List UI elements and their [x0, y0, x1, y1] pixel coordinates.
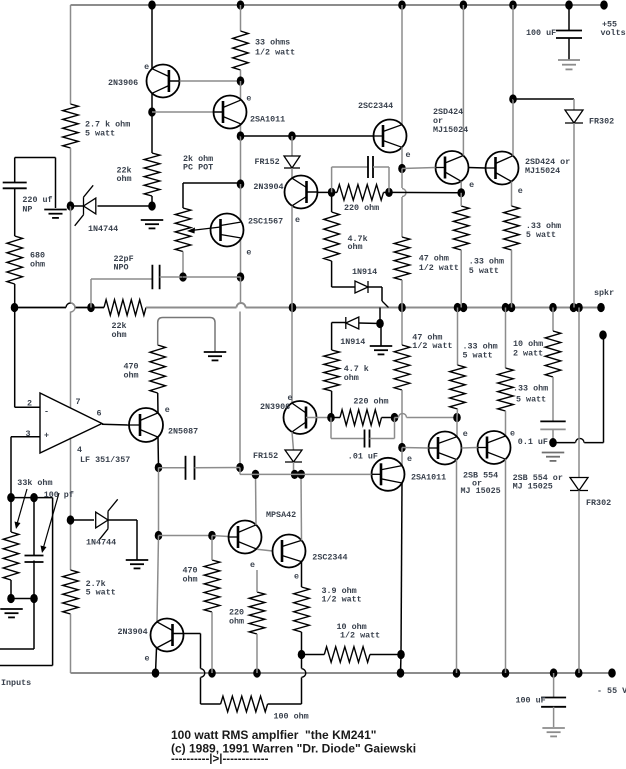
svg-text:NPO: NPO: [114, 263, 129, 273]
svg-text:e: e: [144, 62, 149, 72]
svg-text:5 watt: 5 watt: [463, 351, 493, 361]
svg-text:e: e: [246, 248, 251, 258]
svg-text:2N3906: 2N3906: [260, 402, 290, 412]
svg-text:2: 2: [27, 399, 32, 409]
svg-text:PC POT: PC POT: [183, 163, 213, 173]
svg-text:----------|>|------------: ----------|>|------------: [171, 754, 269, 764]
svg-text:.01 uF: .01 uF: [348, 452, 378, 462]
svg-text:e: e: [463, 429, 468, 439]
svg-text:47 ohm: 47 ohm: [419, 254, 449, 264]
svg-text:e: e: [510, 429, 515, 439]
svg-text:e: e: [288, 393, 293, 403]
svg-text:MJ 15025: MJ 15025: [461, 486, 501, 496]
svg-text:ohm: ohm: [124, 371, 139, 381]
svg-text:100 watt RMS amplfier "the KM: 100 watt RMS amplfier "the KM241": [171, 728, 376, 742]
svg-text:100 ohm: 100 ohm: [274, 712, 309, 722]
svg-text:7: 7: [76, 397, 81, 407]
svg-text:+: +: [44, 431, 49, 441]
svg-text:5 watt: 5 watt: [86, 588, 116, 598]
svg-text:1/2 watt: 1/2 watt: [412, 341, 452, 351]
svg-text:100 uF: 100 uF: [516, 696, 546, 706]
svg-text:100 pf: 100 pf: [44, 490, 74, 500]
svg-text:0.1 uF: 0.1 uF: [518, 437, 548, 447]
svg-text:e: e: [145, 654, 150, 664]
svg-text:2N3906: 2N3906: [108, 78, 138, 88]
svg-text:FR302: FR302: [586, 498, 611, 508]
svg-text:ohm: ohm: [117, 174, 132, 184]
svg-text:100 uF: 100 uF: [526, 28, 556, 38]
svg-text:ohm: ohm: [229, 617, 244, 627]
svg-text:5 watt: 5 watt: [516, 395, 546, 405]
svg-text:2N5087: 2N5087: [168, 427, 198, 437]
svg-text:ohm: ohm: [183, 575, 198, 585]
svg-text:e: e: [295, 215, 300, 225]
svg-text:FR152: FR152: [255, 157, 280, 167]
svg-text:e: e: [406, 150, 411, 160]
svg-text:e: e: [294, 572, 299, 582]
svg-text:2 watt: 2 watt: [513, 349, 543, 359]
svg-text:220 uf: 220 uf: [22, 195, 52, 205]
svg-text:1N914: 1N914: [340, 337, 365, 347]
svg-text:e: e: [250, 560, 255, 570]
svg-text:LF 351/357: LF 351/357: [80, 455, 130, 465]
svg-text:2SC2344: 2SC2344: [358, 101, 393, 111]
svg-text:1N914: 1N914: [352, 267, 377, 277]
svg-text:MJ 15025: MJ 15025: [513, 482, 553, 492]
svg-text:ohm: ohm: [30, 260, 45, 270]
svg-text:Inputs: Inputs: [1, 678, 31, 688]
svg-text:FR152: FR152: [253, 451, 278, 461]
svg-text:e: e: [518, 186, 523, 196]
svg-text:33k ohm: 33k ohm: [17, 478, 52, 488]
svg-text:NP: NP: [22, 205, 32, 215]
svg-text:- 55 V: - 55 V: [597, 686, 626, 696]
svg-text:5 watt: 5 watt: [469, 266, 499, 276]
svg-text:3: 3: [26, 429, 31, 439]
svg-text:1N4744: 1N4744: [88, 224, 118, 234]
svg-text:2SA1011: 2SA1011: [250, 115, 285, 125]
svg-text:1/2 watt: 1/2 watt: [322, 595, 362, 605]
svg-text:MJ15024: MJ15024: [433, 125, 468, 135]
svg-text:-: -: [44, 407, 49, 417]
svg-text:e: e: [246, 94, 251, 104]
svg-text:220 ohm: 220 ohm: [353, 397, 388, 407]
svg-text:10 ohm: 10 ohm: [513, 339, 543, 349]
svg-text:ohm: ohm: [112, 330, 127, 340]
svg-text:.33 ohm: .33 ohm: [513, 384, 548, 394]
svg-text:ohm: ohm: [344, 373, 359, 383]
svg-text:5 watt: 5 watt: [526, 230, 556, 240]
svg-text:6: 6: [97, 409, 102, 419]
svg-text:ohm: ohm: [348, 242, 363, 252]
svg-text:2N3904: 2N3904: [253, 182, 283, 192]
svg-text:e: e: [165, 405, 170, 415]
svg-text:2SA1011: 2SA1011: [411, 473, 446, 483]
svg-text:volts: volts: [601, 28, 626, 38]
svg-text:1/2 watt: 1/2 watt: [419, 263, 459, 273]
svg-text:1/2 watt: 1/2 watt: [340, 631, 380, 641]
svg-text:FR302: FR302: [589, 117, 614, 127]
svg-text:MJ15024: MJ15024: [525, 166, 560, 176]
svg-text:4: 4: [77, 445, 82, 455]
svg-text:1/2 watt: 1/2 watt: [255, 48, 295, 58]
svg-text:33 ohms: 33 ohms: [255, 38, 290, 48]
svg-text:2N3904: 2N3904: [118, 627, 148, 637]
svg-text:MPSA42: MPSA42: [266, 510, 296, 520]
svg-text:2SC2344: 2SC2344: [312, 553, 347, 563]
svg-text:e: e: [407, 454, 412, 464]
svg-text:2SC1567: 2SC1567: [248, 217, 283, 227]
svg-text:e: e: [469, 180, 474, 190]
svg-text:220 ohm: 220 ohm: [344, 203, 379, 213]
svg-text:.33 ohm: .33 ohm: [469, 256, 504, 266]
svg-text:5 watt: 5 watt: [85, 129, 115, 139]
svg-text:spkr: spkr: [594, 288, 614, 298]
svg-text:1N4744: 1N4744: [86, 538, 116, 548]
